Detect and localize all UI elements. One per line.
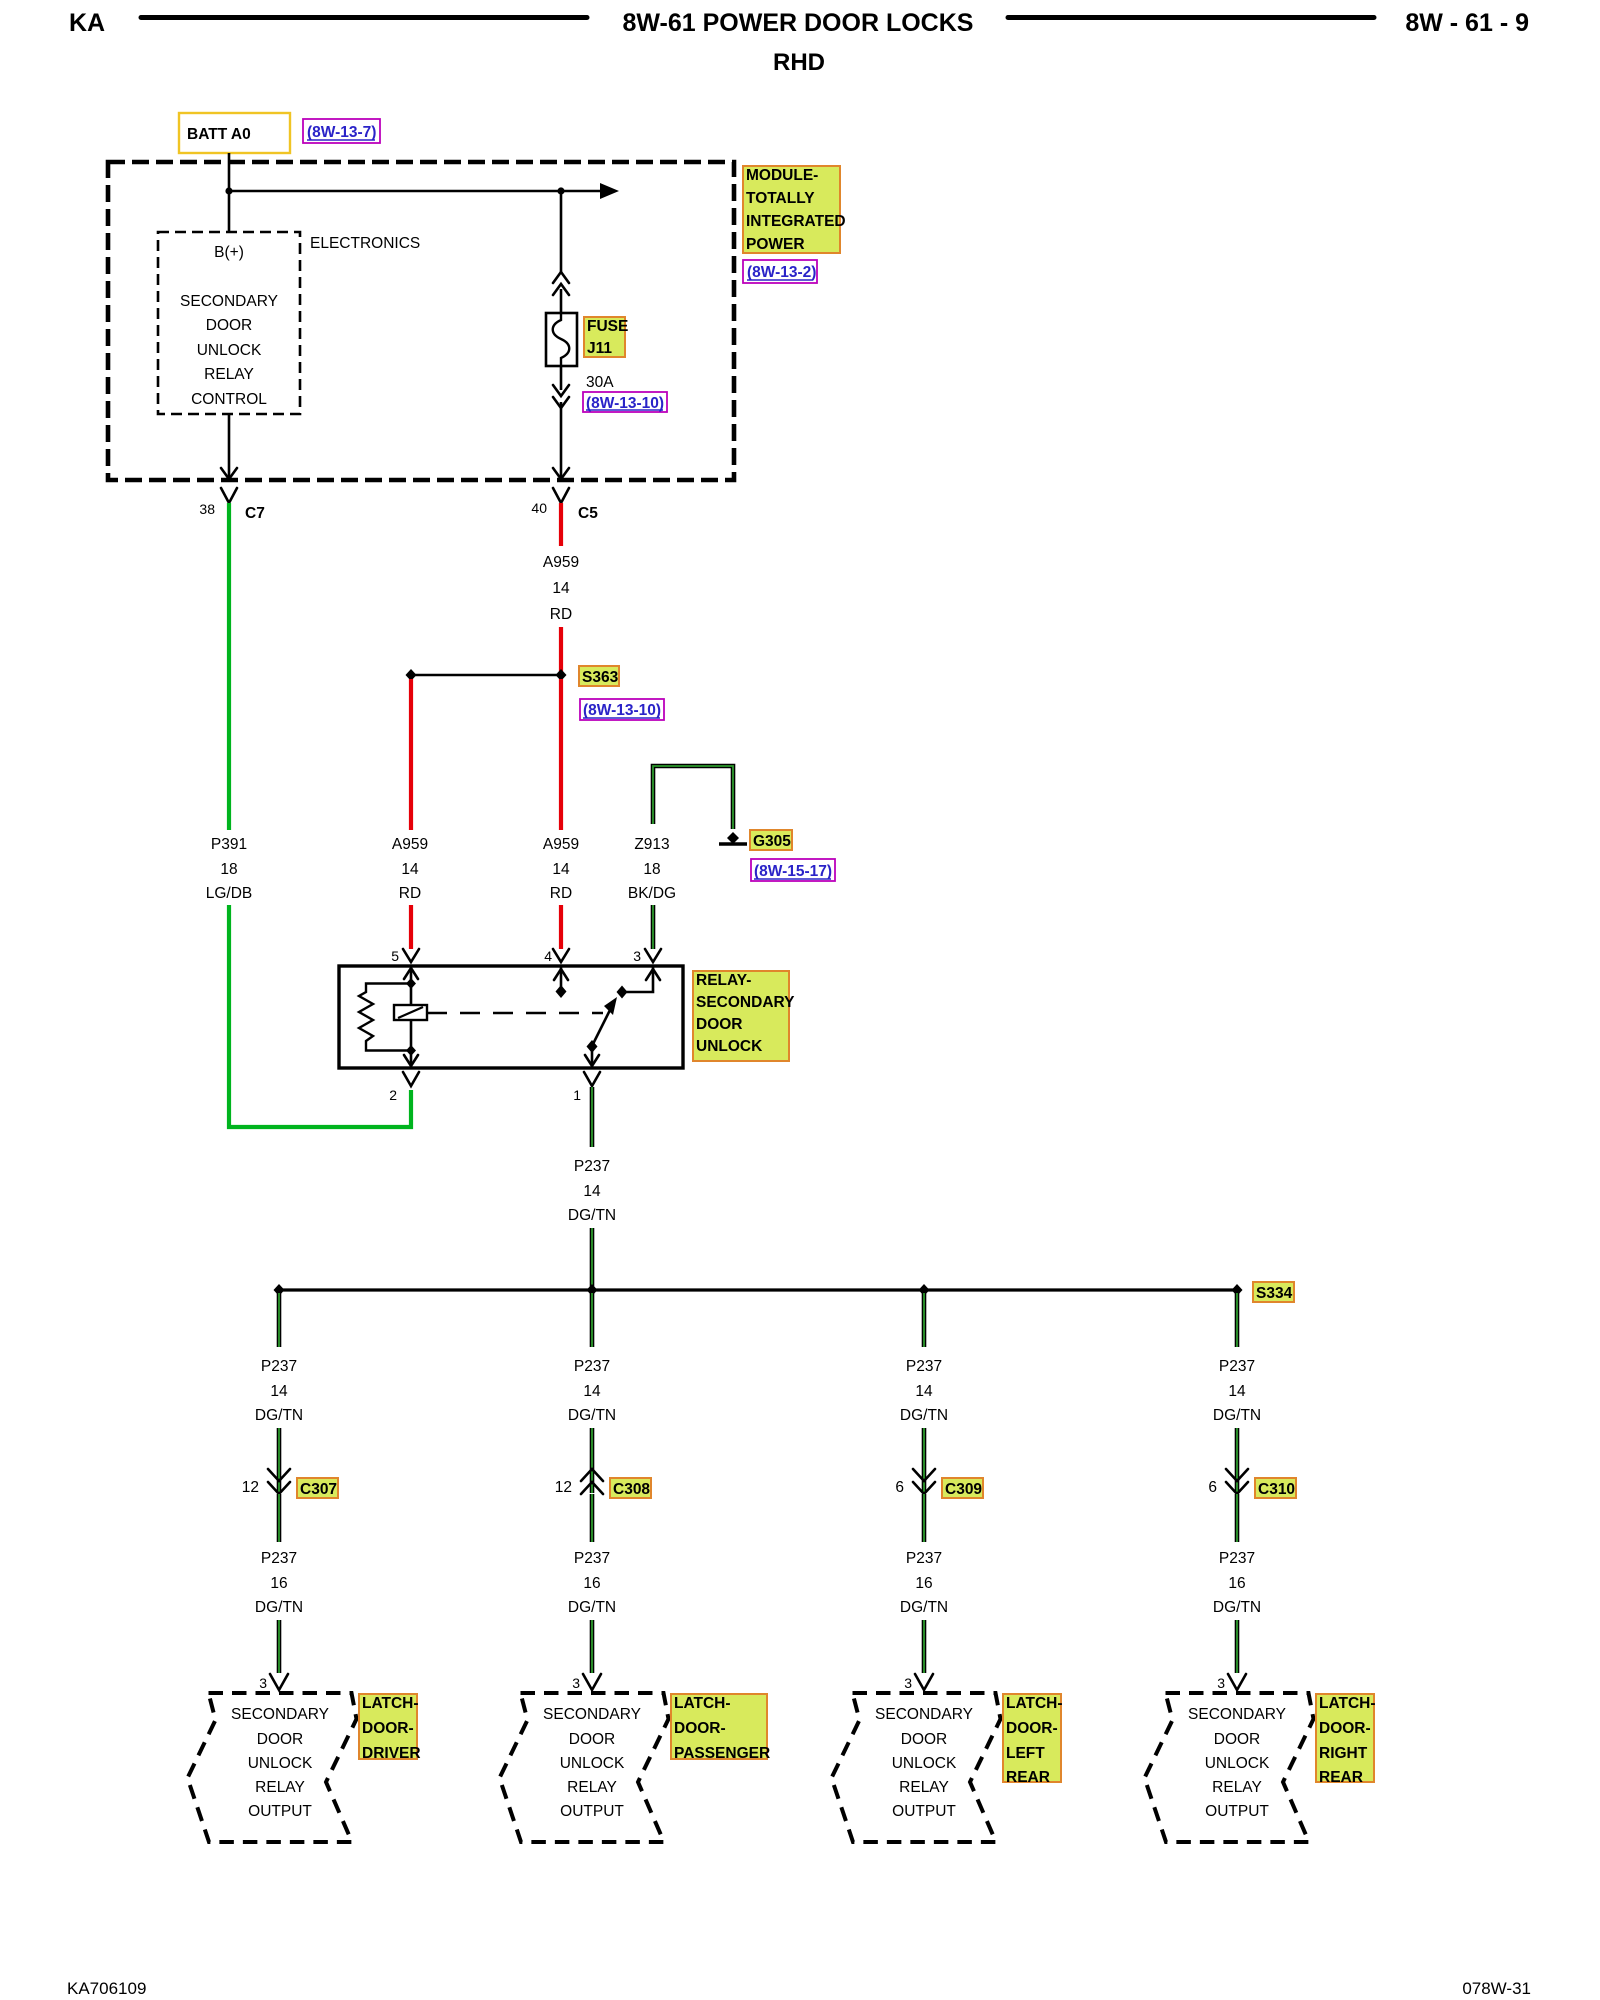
connector symbol latch1 pin 3 [270, 1674, 288, 1690]
svg-text:DG/TN: DG/TN [255, 1407, 303, 1424]
wire P237 drop1 upper [277, 1293, 282, 1347]
wire P237 drop2 upper [590, 1293, 595, 1347]
wire P237 drop4 upper [1235, 1293, 1240, 1347]
latch M4 right rear door: dashed outline [1145, 1693, 1314, 1842]
svg-text:16: 16 [915, 1575, 932, 1592]
svg-text:DRIVER: DRIVER [362, 1745, 421, 1762]
svg-text:DOOR: DOOR [206, 317, 253, 334]
svg-text:C307: C307 [300, 1481, 337, 1498]
latch M3 left rear door: dashed outline [832, 1693, 1001, 1842]
splice S363 diamond right [556, 669, 567, 681]
svg-text:FUSE: FUSE [587, 318, 628, 335]
svg-text:DG/TN: DG/TN [568, 1207, 616, 1224]
svg-text:LATCH-: LATCH- [362, 1695, 419, 1712]
svg-text:2: 2 [389, 1087, 397, 1103]
ground G305 symbol [727, 832, 739, 844]
wire drop1 to connector [277, 1428, 282, 1493]
svg-text:P237: P237 [906, 1550, 942, 1567]
svg-text:6: 6 [1208, 1479, 1217, 1496]
wire A959 red branch left of splice [409, 679, 413, 830]
wire from BATT A0 down into module [228, 153, 231, 232]
svg-text:UNLOCK: UNLOCK [248, 1755, 313, 1772]
wire down to fuse [560, 191, 563, 272]
connector label C310 [1255, 1478, 1296, 1498]
relay K1 secondary door unlock: body [339, 966, 683, 1068]
svg-text:C310: C310 [1258, 1481, 1295, 1498]
svg-text:DOOR: DOOR [257, 1731, 304, 1748]
wire from fuse to module edge pin 40 [560, 402, 563, 479]
svg-text:INTEGRATED: INTEGRATED [746, 213, 846, 230]
svg-text:3: 3 [259, 1675, 267, 1691]
node diamond bus 3 [919, 1284, 930, 1296]
svg-text:(8W-15-17): (8W-15-17) [754, 863, 832, 880]
wire P237 16 drop2 [590, 1494, 595, 1542]
svg-text:14: 14 [583, 1183, 601, 1200]
svg-text:J11: J11 [587, 340, 612, 357]
connector C308 symbol [581, 1469, 603, 1481]
svg-text:UNLOCK: UNLOCK [1205, 1755, 1270, 1772]
svg-text:A959: A959 [392, 836, 428, 853]
wire Z913 ground loop black [653, 766, 733, 829]
svg-text:P237: P237 [261, 1550, 297, 1567]
svg-text:OUTPUT: OUTPUT [1205, 1803, 1269, 1820]
link label (8W-15-17) [751, 859, 835, 881]
svg-text:14: 14 [270, 1383, 288, 1400]
svg-text:KA706109: KA706109 [67, 1979, 146, 1998]
connector C310 symbol [1226, 1469, 1248, 1481]
latch M1 driver door: dashed outline [188, 1693, 357, 1842]
svg-text:RELAY: RELAY [255, 1779, 305, 1796]
svg-text:DOOR-: DOOR- [1319, 1720, 1371, 1737]
svg-text:3: 3 [904, 1675, 912, 1691]
svg-text:RELAY-: RELAY- [696, 972, 751, 989]
wire drop1 to latch [277, 1620, 282, 1673]
svg-text:16: 16 [583, 1575, 600, 1592]
svg-text:SECONDARY: SECONDARY [180, 293, 278, 310]
svg-text:078W-31: 078W-31 [1462, 1979, 1531, 1998]
svg-text:LATCH-: LATCH- [674, 1695, 731, 1712]
pin 3 internal conductor [622, 967, 653, 992]
svg-text:ELECTRONICS: ELECTRONICS [310, 235, 420, 252]
wire A959 red left stub to relay pin 5 [409, 905, 413, 949]
svg-text:(8W-13-7): (8W-13-7) [307, 124, 376, 141]
svg-text:RIGHT: RIGHT [1319, 1745, 1368, 1762]
wire P237 segment to bus [590, 1228, 595, 1288]
svg-text:30A: 30A [586, 374, 614, 391]
svg-text:DG/TN: DG/TN [900, 1599, 948, 1616]
latch label LATCH-DOOR-RIGHT REAR [1316, 1694, 1374, 1782]
splice bus S334 [279, 1288, 1237, 1291]
svg-text:UNLOCK: UNLOCK [892, 1755, 957, 1772]
latch label LATCH-DOOR-LEFT REAR [1003, 1694, 1061, 1782]
relay coil branch: pin 5 internal conductor [410, 967, 413, 1067]
svg-text:C308: C308 [613, 1481, 650, 1498]
node diamond switch pivot [587, 1040, 598, 1053]
fuse label FUSE J11 [584, 317, 625, 357]
svg-text:14: 14 [1228, 1383, 1246, 1400]
wire drop4 to latch [1235, 1620, 1240, 1673]
svg-text:12: 12 [555, 1479, 572, 1496]
svg-text:RELAY: RELAY [1212, 1779, 1262, 1796]
svg-text:DOOR-: DOOR- [674, 1720, 726, 1737]
svg-text:P237: P237 [574, 1358, 610, 1375]
svg-text:TOTALLY: TOTALLY [746, 190, 815, 207]
wire drop3 to connector [922, 1428, 927, 1493]
svg-text:P237: P237 [906, 1358, 942, 1375]
svg-text:S334: S334 [1256, 1285, 1293, 1302]
svg-text:A959: A959 [543, 836, 579, 853]
wire P237 16 drop3 [922, 1494, 927, 1542]
svg-text:LATCH-: LATCH- [1319, 1695, 1376, 1712]
svg-text:8W - 61 - 9: 8W - 61 - 9 [1405, 9, 1529, 37]
svg-text:PASSENGER: PASSENGER [674, 1745, 770, 1762]
svg-text:DG/TN: DG/TN [568, 1407, 616, 1424]
node diamond bus 2 [587, 1284, 598, 1296]
connector chevrons above fuse [553, 272, 569, 283]
svg-text:3: 3 [1217, 1675, 1225, 1691]
fuse F-J11 body [546, 313, 577, 366]
battery feed box BATT A0 [179, 113, 290, 153]
svg-text:DOOR: DOOR [1214, 1731, 1261, 1748]
svg-text:RELAY: RELAY [899, 1779, 949, 1796]
svg-text:OUTPUT: OUTPUT [248, 1803, 312, 1820]
connector label C309 [942, 1478, 983, 1498]
svg-text:P237: P237 [261, 1358, 297, 1375]
svg-text:S363: S363 [582, 669, 619, 686]
svg-text:SECONDARY: SECONDARY [1188, 1706, 1286, 1723]
wire P237 from relay pin 1 [590, 1087, 595, 1147]
switch arm SW1 [592, 1000, 615, 1046]
svg-text:1: 1 [573, 1087, 581, 1103]
svg-text:12: 12 [242, 1479, 259, 1496]
svg-text:C5: C5 [578, 505, 598, 522]
svg-text:3: 3 [633, 948, 641, 964]
pin 1 connector symbol [584, 1072, 600, 1086]
pin 3 connector symbol [645, 949, 661, 962]
svg-text:DOOR: DOOR [696, 1016, 743, 1033]
svg-text:8W-61 POWER DOOR LOCKS: 8W-61 POWER DOOR LOCKS [623, 9, 974, 37]
connector symbol latch4 pin 3 [1228, 1674, 1246, 1690]
link label (8W-13-2) [743, 260, 817, 283]
splice S363 diamond left [406, 669, 417, 681]
svg-text:LG/DB: LG/DB [206, 885, 253, 902]
svg-text:14: 14 [583, 1383, 601, 1400]
svg-text:RD: RD [550, 606, 572, 623]
node diamond bus 1 [274, 1284, 285, 1296]
wire from relay control block to module edge pin 38 [228, 414, 231, 479]
splice S363 bar [411, 674, 561, 677]
wire P391 green upper segment [227, 503, 231, 830]
node diamond bus 4 [1232, 1284, 1243, 1296]
svg-text:SECONDARY: SECONDARY [696, 994, 795, 1011]
wire P237 drop3 upper [922, 1293, 927, 1347]
svg-text:P237: P237 [574, 1158, 610, 1175]
wire P391 green lower segment to relay pin 2 [229, 905, 411, 1127]
svg-text:P391: P391 [211, 836, 247, 853]
pin 1 internal conductor [591, 1046, 594, 1067]
header rule right [1008, 15, 1374, 20]
svg-text:UNLOCK: UNLOCK [560, 1755, 625, 1772]
svg-text:14: 14 [915, 1383, 933, 1400]
pin 5 connector symbol [403, 949, 419, 962]
svg-text:SECONDARY: SECONDARY [543, 1706, 641, 1723]
svg-text:Z913: Z913 [634, 836, 669, 853]
connector chevrons below fuse [560, 366, 563, 390]
resistor R1 (relay coil suppression) zigzag [359, 984, 411, 1051]
mechanical link dashed [427, 1012, 603, 1014]
svg-text:REAR: REAR [1006, 1769, 1050, 1786]
svg-text:C309: C309 [945, 1481, 982, 1498]
wire A959 red center segment below splice [559, 679, 563, 830]
wire drop4 to connector [1235, 1428, 1240, 1493]
wire A959 red stub to relay pin 4 [559, 905, 563, 949]
svg-text:18: 18 [220, 861, 237, 878]
svg-text:5: 5 [391, 948, 399, 964]
connector label C307 [297, 1478, 338, 1498]
svg-text:BATT A0: BATT A0 [187, 126, 251, 143]
connector C5 symbol at pin 40 [553, 488, 569, 503]
svg-text:OUTPUT: OUTPUT [892, 1803, 956, 1820]
wire P237 16 drop4 [1235, 1494, 1240, 1542]
svg-text:KA: KA [69, 9, 105, 37]
svg-text:DOOR: DOOR [569, 1731, 616, 1748]
svg-text:DOOR-: DOOR- [362, 1720, 414, 1737]
node junction dot at batt feed [225, 187, 232, 194]
svg-text:14: 14 [552, 580, 570, 597]
svg-text:SECONDARY: SECONDARY [875, 1706, 973, 1723]
link label (8W-13-7) [303, 119, 380, 143]
pin 4 connector symbol [553, 949, 569, 962]
svg-text:P237: P237 [574, 1550, 610, 1567]
wire A959 red from C5 [559, 503, 563, 546]
wire horizontal feed with arrow [229, 190, 601, 193]
svg-text:DG/TN: DG/TN [1213, 1599, 1261, 1616]
svg-text:RD: RD [399, 885, 421, 902]
svg-text:SECONDARY: SECONDARY [231, 1706, 329, 1723]
wire drop3 to latch [922, 1620, 927, 1673]
wire drop2 to connector [590, 1428, 595, 1493]
svg-text:38: 38 [199, 501, 215, 517]
svg-text:DG/TN: DG/TN [1213, 1407, 1261, 1424]
svg-text:DOOR: DOOR [901, 1731, 948, 1748]
node diamond pin 4 contact [556, 985, 567, 998]
svg-text:REAR: REAR [1319, 1769, 1363, 1786]
svg-text:DG/TN: DG/TN [568, 1599, 616, 1616]
node diamond top of coil tap [406, 978, 416, 989]
svg-text:DG/TN: DG/TN [255, 1599, 303, 1616]
svg-text:POWER: POWER [746, 236, 805, 253]
svg-text:RELAY: RELAY [567, 1779, 617, 1796]
wire P237 16 drop1 [277, 1494, 282, 1542]
inner dashed box secondary door unlock relay control [158, 232, 300, 414]
node junction dot at fuse tap [557, 187, 564, 194]
connector C7 symbol at pin 38 [221, 488, 237, 503]
svg-text:14: 14 [552, 861, 570, 878]
relay label RELAY-SECONDARY DOOR UNLOCK [693, 971, 789, 1061]
svg-text:4: 4 [544, 948, 552, 964]
link label (8W-13-10) [583, 392, 667, 412]
connector C307 symbol [268, 1469, 290, 1481]
module label MODULE-TOTALLY INTEGRATED POWER [743, 166, 840, 253]
link label (8W-13-10) at splice [580, 699, 664, 720]
svg-text:16: 16 [270, 1575, 287, 1592]
wire drop2 to latch [590, 1620, 595, 1673]
arrowhead of feed wire [600, 183, 619, 199]
svg-text:3: 3 [572, 1675, 580, 1691]
splice label S363 [579, 666, 619, 686]
pin 4 internal conductor [560, 967, 563, 990]
node diamond pin 3 contact [617, 986, 628, 999]
svg-text:G305: G305 [753, 833, 791, 850]
svg-text:6: 6 [895, 1479, 904, 1496]
relay coil L1 box with slash [394, 1005, 427, 1020]
node diamond bottom of coil tap [406, 1045, 416, 1056]
svg-text:B(+): B(+) [214, 244, 244, 261]
connector symbol latch3 pin 3 [915, 1674, 933, 1690]
svg-text:40: 40 [531, 500, 547, 516]
svg-text:UNLOCK: UNLOCK [696, 1038, 763, 1055]
svg-text:18: 18 [643, 861, 660, 878]
svg-text:RD: RD [550, 885, 572, 902]
svg-text:UNLOCK: UNLOCK [197, 342, 262, 359]
svg-text:CONTROL: CONTROL [191, 391, 267, 408]
latch label LATCH-DOOR-PASSENGER [671, 1694, 767, 1759]
svg-text:LEFT: LEFT [1006, 1745, 1045, 1762]
connector C309 symbol [913, 1469, 935, 1481]
svg-text:BK/DG: BK/DG [628, 885, 676, 902]
svg-text:14: 14 [401, 861, 419, 878]
svg-text:(8W-13-10): (8W-13-10) [583, 702, 661, 719]
module U1 totally integrated power: dashed outline [108, 162, 734, 480]
svg-text:C7: C7 [245, 505, 265, 522]
svg-text:OUTPUT: OUTPUT [560, 1803, 624, 1820]
svg-text:DOOR-: DOOR- [1006, 1720, 1058, 1737]
svg-text:P237: P237 [1219, 1550, 1255, 1567]
svg-text:MODULE-: MODULE- [746, 167, 818, 184]
connector symbol latch2 pin 3 [583, 1674, 601, 1690]
ground label G305 [750, 830, 792, 850]
latch label LATCH-DOOR-DRIVER [359, 1694, 417, 1759]
connector label C308 [610, 1478, 651, 1498]
wire A959 red segment to splice [559, 627, 563, 675]
svg-text:16: 16 [1228, 1575, 1245, 1592]
svg-text:P237: P237 [1219, 1358, 1255, 1375]
pin 2 connector symbol [403, 1072, 419, 1086]
svg-text:RELAY: RELAY [204, 366, 254, 383]
svg-text:A959: A959 [543, 554, 579, 571]
header rule left [141, 15, 587, 20]
wire Z913 stub to relay pin 3 [651, 905, 656, 949]
latch M2 passenger door: dashed outline [500, 1693, 669, 1842]
svg-text:(8W-13-2): (8W-13-2) [747, 264, 816, 281]
svg-text:DG/TN: DG/TN [900, 1407, 948, 1424]
svg-text:LATCH-: LATCH- [1006, 1695, 1063, 1712]
splice label S334 [1253, 1282, 1294, 1302]
svg-text:RHD: RHD [773, 49, 825, 76]
